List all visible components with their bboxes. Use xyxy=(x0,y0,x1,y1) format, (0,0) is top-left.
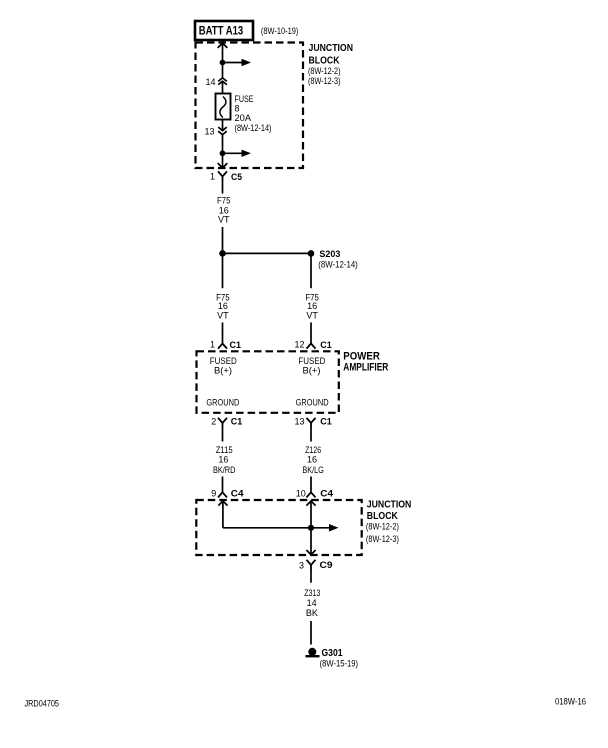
sheet code JRD04705 xyxy=(25,698,60,708)
svg-text:VT: VT xyxy=(218,215,230,225)
svg-text:GROUND: GROUND xyxy=(296,398,329,408)
connector C1 pin 12 xyxy=(294,340,331,350)
svg-text:(8W-12-2): (8W-12-2) xyxy=(366,522,399,532)
svg-text:C1: C1 xyxy=(231,417,243,427)
svg-text:(8W-12-14): (8W-12-14) xyxy=(235,123,272,133)
svg-text:B(+): B(+) xyxy=(214,366,232,376)
svg-text:S203: S203 xyxy=(319,249,340,260)
svg-text:1: 1 xyxy=(210,171,215,181)
arrowhead up at pin 10 xyxy=(306,501,315,506)
svg-text:14: 14 xyxy=(205,77,215,87)
svg-text:BLOCK: BLOCK xyxy=(309,56,341,67)
svg-text:16: 16 xyxy=(218,454,228,464)
wire F75 16 VT (left branch) xyxy=(216,253,230,343)
wire Z313 14 BK xyxy=(304,571,320,645)
feed arrow right (lower) xyxy=(223,150,252,157)
wire C4 pin 9 branch inside JB2 xyxy=(223,501,331,528)
svg-text:BATT A13: BATT A13 xyxy=(199,24,244,38)
svg-text:9: 9 xyxy=(211,489,216,499)
svg-text:C1: C1 xyxy=(230,340,242,350)
svg-text:Z313: Z313 xyxy=(304,588,320,598)
svg-text:13: 13 xyxy=(204,126,214,136)
svg-text:C4: C4 xyxy=(320,489,333,499)
svg-text:20A: 20A xyxy=(235,113,252,123)
label FUSE 8 20A (8W-12-14) xyxy=(235,94,272,133)
connector C1 pin 13 xyxy=(294,416,331,429)
svg-text:BK/RD: BK/RD xyxy=(213,465,236,475)
wire BATT A13 to fuse xyxy=(222,40,224,94)
connector C4 pin 9 xyxy=(211,489,243,499)
label FUSED B(+) (left) xyxy=(210,356,237,375)
fuse 8 20A element xyxy=(216,94,231,120)
connector C1 pin 2 xyxy=(211,416,242,429)
wire fuse to C5 xyxy=(222,120,224,169)
svg-text:(8W-15-19): (8W-15-19) xyxy=(320,659,359,669)
pin number 13 xyxy=(204,126,214,136)
svg-text:C9: C9 xyxy=(320,560,333,570)
svg-text:GROUND: GROUND xyxy=(206,398,239,408)
label JUNCTION BLOCK (8W-12-2) (8W-12-3) xyxy=(308,43,353,86)
feed arrow right (upper) xyxy=(223,59,252,66)
svg-text:13: 13 xyxy=(294,416,304,426)
svg-text:FUSE: FUSE xyxy=(235,94,254,104)
arrowhead up to BATT feed xyxy=(218,43,228,48)
svg-text:JUNCTION: JUNCTION xyxy=(309,43,354,54)
svg-text:C1: C1 xyxy=(320,340,332,350)
svg-text:VT: VT xyxy=(217,310,229,320)
power amplifier dashed outline xyxy=(197,351,339,413)
wire C4 pin 10 through JB2 xyxy=(310,501,312,555)
splice S203 xyxy=(219,249,358,269)
svg-text:3: 3 xyxy=(299,560,304,570)
arrowhead down to C5 xyxy=(218,163,228,168)
svg-text:(8W-12-3): (8W-12-3) xyxy=(366,534,399,544)
label FUSED B(+) (right) xyxy=(298,356,325,375)
ground G301 xyxy=(306,647,359,668)
arrowhead up at pin 9 xyxy=(218,501,227,506)
label (8W-10-19) xyxy=(261,26,299,36)
connector C4 pin 10 xyxy=(296,489,333,499)
svg-text:JRD04705: JRD04705 xyxy=(25,698,60,708)
svg-text:VT: VT xyxy=(306,310,318,320)
arrowhead down to C9 xyxy=(306,550,315,555)
svg-text:018W-16: 018W-16 xyxy=(555,696,586,706)
junction dot (lower) xyxy=(220,150,226,156)
svg-text:BK: BK xyxy=(306,608,318,618)
svg-text:14: 14 xyxy=(307,598,317,608)
label POWER AMPLIFIER xyxy=(343,351,388,374)
svg-text:JUNCTION: JUNCTION xyxy=(367,500,412,511)
svg-text:10: 10 xyxy=(296,489,306,499)
svg-text:(8W-12-3): (8W-12-3) xyxy=(308,76,341,86)
junction dot (upper) xyxy=(220,60,226,66)
sheet code 018W-16 xyxy=(555,696,586,706)
svg-text:F75: F75 xyxy=(217,196,231,206)
svg-text:1: 1 xyxy=(210,340,215,350)
pin 14 in-line connector chevrons xyxy=(218,78,227,85)
wire F75 16 VT (right branch) xyxy=(305,253,319,343)
svg-text:12: 12 xyxy=(294,340,304,350)
junction block JB1 dashed outline xyxy=(196,43,304,169)
wire F75 16 VT (upper segment) xyxy=(217,182,231,254)
svg-text:(8W-12-2): (8W-12-2) xyxy=(308,66,341,76)
connector C1 pin 1 xyxy=(210,340,241,350)
wire Z126 16 BK/LG xyxy=(302,430,324,493)
pin 13 in-line connector chevrons xyxy=(218,127,227,135)
label JUNCTION BLOCK (8W-12-2) (8W-12-3) lower xyxy=(366,500,411,544)
feed arrow right inside JB2 xyxy=(329,524,339,532)
svg-text:(8W-10-19): (8W-10-19) xyxy=(261,26,299,36)
pin number 14 xyxy=(205,77,215,87)
junction block JB2 dashed outline xyxy=(196,500,361,555)
junction dot inside JB2 xyxy=(308,525,314,531)
svg-text:C1: C1 xyxy=(320,417,332,427)
svg-text:C4: C4 xyxy=(231,489,244,499)
battery feed box BATT A13 xyxy=(195,21,253,40)
svg-text:8: 8 xyxy=(235,104,240,114)
svg-text:C5: C5 xyxy=(231,172,242,182)
connector C9 pin 3 xyxy=(299,560,333,571)
label GROUND (left) xyxy=(206,398,239,408)
svg-text:B(+): B(+) xyxy=(303,366,321,376)
connector C5 pin 1 xyxy=(210,171,242,182)
svg-text:AMPLIFIER: AMPLIFIER xyxy=(343,361,388,373)
svg-text:BLOCK: BLOCK xyxy=(367,511,399,522)
svg-text:BK/LG: BK/LG xyxy=(302,465,324,475)
svg-text:(8W-12-14): (8W-12-14) xyxy=(318,259,358,269)
svg-text:G301: G301 xyxy=(322,647,343,659)
label GROUND (right) xyxy=(296,398,329,408)
svg-text:16: 16 xyxy=(307,454,317,464)
wire Z115 16 BK/RD xyxy=(213,430,236,493)
svg-text:2: 2 xyxy=(211,416,216,426)
